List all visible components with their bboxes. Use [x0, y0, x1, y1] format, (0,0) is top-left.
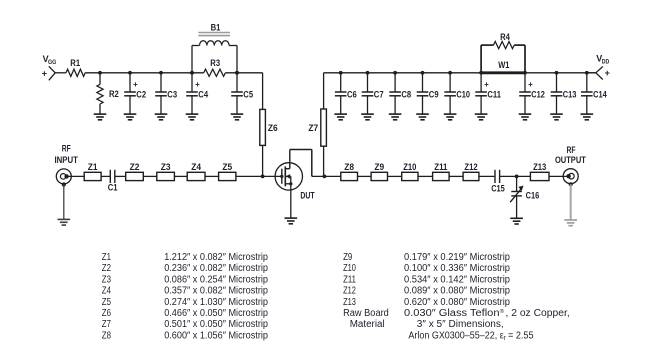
wire rail R3 to Z6 corner: [225, 72, 262, 74]
svg-text:C12: C12: [531, 90, 545, 101]
svg-text:3″ x 5″ Dimensions,: 3″ x 5″ Dimensions,: [417, 319, 504, 330]
svg-text:0.089″ x 0.080″ Microstrip: 0.089″ x 0.080″ Microstrip: [404, 286, 510, 297]
ground C16: [510, 217, 523, 219]
svg-text:Z5: Z5: [102, 297, 112, 308]
svg-text:Z9: Z9: [374, 162, 384, 173]
microstrip Z10: [402, 172, 418, 180]
node B1 left / C4: [190, 71, 194, 75]
svg-text:W1: W1: [498, 60, 510, 71]
microstrip Z4: [187, 172, 205, 180]
svg-text:DUT: DUT: [300, 191, 314, 202]
svg-text:Z7: Z7: [308, 123, 318, 134]
svg-text:C3: C3: [167, 90, 177, 101]
wire input to ground: [63, 184, 65, 219]
transistor DUT circle: [275, 163, 302, 190]
ground DUT source: [285, 217, 298, 219]
svg-text:Arlon GX0300–55–22, ε: Arlon GX0300–55–22, ε: [408, 330, 504, 341]
svg-text:Z7: Z7: [102, 319, 112, 330]
svg-text:, 2 oz Copper,: , 2 oz Copper,: [506, 308, 570, 319]
wire Z2 to Z3: [143, 175, 157, 177]
svg-text:Z13: Z13: [533, 162, 546, 173]
wire Z3 to Z4: [174, 175, 187, 177]
svg-text:Z10: Z10: [343, 263, 356, 274]
svg-text:Z1: Z1: [88, 162, 98, 173]
microstrip Z3: [157, 172, 175, 180]
svg-text:+: +: [484, 80, 489, 89]
svg-text:Z2: Z2: [130, 162, 140, 173]
wire Z12 to C15: [479, 175, 495, 177]
DUT gate node: [280, 175, 283, 178]
svg-text:OUTPUT: OUTPUT: [555, 155, 586, 165]
svg-text:C13: C13: [563, 90, 577, 101]
microstrip Z7: [321, 109, 327, 146]
svg-text:Z11: Z11: [434, 162, 448, 173]
node R2: [98, 71, 102, 75]
wire Z7 to drain rail: [323, 146, 325, 176]
svg-text:Raw Board: Raw Board: [343, 308, 389, 319]
svg-text:R4: R4: [500, 32, 510, 43]
svg-text:Z11: Z11: [343, 274, 356, 285]
capacitor C10: [449, 73, 451, 92]
capacitor C8: [394, 73, 396, 92]
svg-text:Z3: Z3: [102, 274, 112, 285]
svg-text:0.466″ x 0.050″ Microstrip: 0.466″ x 0.050″ Microstrip: [164, 308, 268, 319]
capacitor C11: [480, 73, 482, 92]
microstrip Z1: [84, 172, 101, 180]
wire rail R1 to R3: [85, 72, 204, 74]
svg-text:0.236″ x 0.082″ Microstrip: 0.236″ x 0.082″ Microstrip: [164, 263, 268, 274]
resistor R3: [204, 69, 226, 76]
svg-text:0.501″ x 0.050″ Microstrip: 0.501″ x 0.050″ Microstrip: [164, 319, 268, 330]
microstrip Z2: [126, 172, 144, 180]
svg-text:Z6: Z6: [102, 308, 112, 319]
svg-text:RF: RF: [567, 145, 576, 155]
capacitor C14: [586, 73, 588, 92]
wire connector to Z1: [68, 175, 84, 177]
svg-text:0.030″ Glass Teflon: 0.030″ Glass Teflon: [404, 308, 500, 319]
wire Z1 to C1: [101, 175, 110, 177]
svg-text:C14: C14: [593, 90, 607, 101]
svg-text:Z8: Z8: [344, 162, 354, 173]
wire Z6 to gate rail: [262, 145, 264, 176]
wire rail to Z6: [262, 73, 264, 110]
wire VGG to R1: [55, 72, 66, 74]
wire bias rail to Z7: [323, 73, 325, 109]
wire drain route: [290, 149, 312, 151]
capacitor C9: [422, 73, 424, 92]
svg-text:Z2: Z2: [102, 263, 112, 274]
svg-text:0.179″ x 0.219″ Microstrip: 0.179″ x 0.219″ Microstrip: [404, 252, 510, 263]
svg-text:Z5: Z5: [222, 162, 232, 173]
svg-text:+: +: [133, 80, 138, 89]
microstrip Z5: [219, 172, 236, 180]
microstrip Z6: [260, 109, 266, 145]
svg-text:Z10: Z10: [403, 162, 416, 173]
svg-text:Material: Material: [350, 319, 385, 330]
svg-text:®: ®: [500, 308, 505, 315]
capacitor C13: [556, 73, 558, 92]
node Z7 drain: [323, 175, 327, 179]
DUT gate plate: [281, 169, 283, 184]
wire Z8 to Z9: [358, 175, 372, 177]
svg-text:C4: C4: [198, 90, 208, 101]
capacitor C7: [367, 73, 369, 92]
svg-text:C9: C9: [429, 90, 439, 101]
svg-text:+: +: [195, 80, 200, 89]
svg-text:C10: C10: [456, 90, 470, 101]
svg-text:GG: GG: [48, 59, 56, 66]
svg-text:C5: C5: [243, 90, 253, 101]
wire Z4 to Z5: [205, 175, 219, 177]
connector RF OUTPUT: [563, 169, 578, 184]
microstrip Z11: [433, 172, 450, 180]
ground R2: [94, 113, 107, 115]
connector J-VGG chevron: [49, 66, 55, 73]
DUT drain tap: [285, 168, 290, 170]
DUT source tap: [285, 183, 291, 185]
svg-text:C2: C2: [136, 90, 146, 101]
wire Z5 to DUT gate: [236, 175, 282, 177]
wire drain bias rail right: [525, 72, 596, 74]
capacitor C15: [494, 170, 496, 183]
svg-text:C6: C6: [347, 90, 357, 101]
capacitor C2: [129, 73, 131, 92]
svg-text:Z12: Z12: [464, 162, 477, 173]
svg-text:DD: DD: [602, 58, 610, 65]
inductor B1: [191, 46, 193, 73]
wire C15 to Z13: [500, 175, 531, 177]
svg-text:Z1: Z1: [102, 252, 112, 263]
svg-text:C16: C16: [526, 190, 540, 201]
ground RF OUTPUT: [564, 219, 577, 221]
wire Z9 to Z10: [388, 175, 402, 177]
svg-text:0.600″ x 1.056″ Microstrip: 0.600″ x 1.056″ Microstrip: [164, 330, 268, 341]
ground RF INPUT: [58, 218, 71, 220]
svg-text:0.534″ x 0.142″ Microstrip: 0.534″ x 0.142″ Microstrip: [404, 274, 510, 285]
node B1 right / C5: [235, 71, 239, 75]
svg-text:+: +: [528, 80, 533, 89]
wire Z13 to output: [549, 175, 568, 177]
svg-text:+: +: [42, 69, 47, 79]
svg-text:Z12: Z12: [343, 286, 356, 297]
svg-text:0.357″ x 0.082″ Microstrip: 0.357″ x 0.082″ Microstrip: [164, 286, 268, 297]
connector J-VDD chevron: [587, 72, 596, 74]
capacitor C5: [236, 73, 238, 92]
wire output to ground: [570, 184, 572, 220]
svg-text:0.100″ x 0.336″ Microstrip: 0.100″ x 0.336″ Microstrip: [404, 263, 510, 274]
wire W1 thick: [481, 71, 525, 74]
svg-text:R1: R1: [70, 58, 80, 69]
node Z6 gate: [261, 175, 265, 179]
wire C1 to Z2: [115, 175, 126, 177]
svg-text:C15: C15: [491, 183, 505, 194]
svg-text:R2: R2: [109, 89, 119, 100]
svg-text:Z8: Z8: [102, 330, 112, 341]
svg-text:B1: B1: [211, 22, 221, 33]
wire drain bias rail left: [324, 72, 482, 74]
svg-text:C1: C1: [108, 183, 118, 194]
svg-text:0.274″ x 1.030″ Microstrip: 0.274″ x 1.030″ Microstrip: [164, 297, 268, 308]
DUT channel: [284, 166, 286, 186]
svg-text:INPUT: INPUT: [55, 155, 79, 165]
svg-text:Z6: Z6: [268, 123, 278, 134]
svg-text:C11: C11: [487, 90, 501, 101]
node C16 tap: [515, 175, 519, 179]
capacitor C3: [160, 73, 162, 92]
svg-text:Z4: Z4: [191, 162, 201, 173]
svg-text:Z13: Z13: [343, 297, 356, 308]
capacitor C12: [524, 73, 526, 92]
svg-text:C7: C7: [374, 90, 384, 101]
capacitor C16 variable: [516, 176, 518, 191]
svg-text:0.620″ x 0.080″ Microstrip: 0.620″ x 0.080″ Microstrip: [404, 297, 510, 308]
svg-text:0.086″ x 0.254″ Microstrip: 0.086″ x 0.254″ Microstrip: [164, 274, 268, 285]
capacitor C6: [340, 73, 342, 92]
svg-text:RF: RF: [62, 143, 71, 153]
capacitor C1: [109, 170, 111, 183]
connector RF INPUT: [56, 169, 71, 184]
wire Z10 to Z11: [418, 175, 433, 177]
svg-text:= 2.55: = 2.55: [508, 330, 534, 341]
svg-text:R3: R3: [210, 58, 220, 69]
svg-text:Z3: Z3: [161, 162, 171, 173]
svg-text:Z9: Z9: [343, 252, 353, 263]
microstrip Z13: [530, 172, 549, 180]
capacitor C4: [191, 73, 193, 92]
svg-text:C8: C8: [401, 90, 411, 101]
svg-text:+: +: [605, 68, 610, 78]
microstrip Z8: [341, 172, 358, 180]
DUT body arrow: [285, 175, 291, 177]
svg-text:1.212″ x 0.082″ Microstrip: 1.212″ x 0.082″ Microstrip: [164, 252, 268, 263]
resistor R1: [66, 69, 85, 76]
wire Z11 to Z12: [449, 175, 463, 177]
microstrip Z9: [371, 172, 387, 180]
node output ground: [569, 182, 573, 186]
resistor R2: [99, 73, 101, 85]
microstrip Z12: [463, 172, 479, 180]
resistor R4: [480, 45, 482, 73]
svg-text:Z4: Z4: [102, 286, 112, 297]
node input ground: [62, 182, 66, 186]
